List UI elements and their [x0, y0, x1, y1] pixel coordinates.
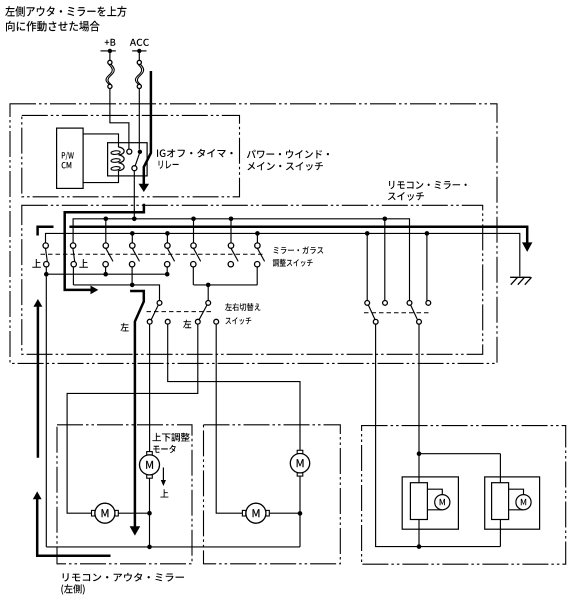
node A-s5: [165, 272, 170, 277]
mirror adjust switch contact 3: [103, 243, 113, 267]
node T2-selL: [365, 231, 370, 236]
fusible link ACC: [135, 60, 143, 88]
mirror box L2: [204, 425, 341, 564]
wire selector4 down: [418, 324, 420, 546]
wire s3 down: [105, 267, 107, 274]
wire T2 to selector R1: [366, 233, 368, 300]
node T2-selR: [425, 231, 430, 236]
relay output contact: [132, 166, 137, 171]
selector switch unit3: [365, 301, 388, 325]
flow arrow down to ground: [522, 242, 532, 252]
wire T2 to selector R4: [426, 233, 428, 300]
wire line C to selector unit2: [207, 285, 209, 301]
thick path selector to motor: [130, 291, 144, 527]
wire M1 to return: [149, 478, 151, 547]
flow arrow down at relay: [139, 184, 150, 192]
wire s8 down: [256, 267, 258, 285]
thick ground bus left stub: [38, 227, 54, 236]
actuator 2 body: [492, 483, 509, 520]
actuator assembly 1 box: [402, 477, 458, 529]
node T1-relay: [132, 217, 137, 222]
actuator 1 body: [410, 483, 427, 520]
title line 2: [6, 21, 100, 32]
left outer mirror box L1: [57, 425, 192, 564]
actuator 2 motor link: [509, 489, 524, 510]
wire P/W CM to coil top: [83, 134, 118, 147]
wire T1 to s7: [230, 219, 232, 243]
thick return wire upper: [37, 306, 40, 458]
thick ground bus: [69, 227, 527, 243]
wire ACC to relay contact: [138, 89, 140, 150]
wire motor return up: [299, 513, 301, 547]
motor M4 left/right right mirror: [242, 503, 269, 523]
+B terminal: [101, 49, 116, 61]
label power window main switch: [247, 150, 329, 171]
relay coil: [111, 147, 124, 171]
wire T2 to s4: [131, 233, 133, 243]
relay U1 box: [108, 143, 148, 176]
relay arm: [135, 154, 139, 166]
wire selector2L to motor M3: [67, 324, 198, 513]
mirror adjust switch contact 7: [228, 243, 238, 267]
node A-s3: [103, 272, 108, 277]
node M1 return: [147, 511, 152, 516]
actuator motor M6: [516, 495, 531, 510]
wire T1 to s6: [193, 219, 195, 243]
relay contact from ACC: [138, 150, 142, 154]
label up-down motor: [152, 433, 189, 453]
actuator 1 motor link: [427, 489, 442, 510]
wire T1 to s3: [105, 219, 107, 243]
wire actuator right column: [499, 454, 501, 547]
label remote outer mirror left: [61, 573, 184, 595]
ACC terminal: [132, 49, 146, 61]
ground bus T2: [46, 233, 520, 276]
mirror adjust switch contact 5: [165, 243, 175, 267]
node T1-s3: [104, 217, 109, 222]
label left u1: [121, 323, 129, 332]
wire T1 to selector R2: [384, 219, 386, 301]
bus line A: [46, 273, 167, 275]
node T2-s5: [165, 231, 170, 236]
node T2-s8: [255, 231, 260, 236]
return line bottom: [46, 546, 300, 548]
label remote mirror switch: [388, 181, 467, 201]
wire selector1L to motor M1: [149, 324, 151, 452]
wire M3 to M1 junction: [118, 512, 149, 514]
thick path relay to switch: [65, 204, 144, 290]
label up s1: [32, 259, 41, 268]
label left-right selector switch: [225, 303, 260, 325]
power window main switch box: [22, 115, 240, 196]
wire s4 down: [131, 267, 133, 285]
node return line: [147, 545, 152, 550]
bus line B: [73, 285, 159, 301]
wire T2 to s8: [256, 233, 258, 243]
feed bus T1: [73, 219, 409, 301]
wire P/W CM to coil bottom: [83, 171, 118, 183]
return wire left: [45, 267, 47, 547]
flow arrow right at switch: [91, 286, 99, 295]
node T1-s6: [191, 217, 196, 222]
node T1-sel: [383, 217, 388, 222]
wire +B to relay contact: [110, 89, 129, 149]
mirror adjust switch contact 8: [255, 243, 265, 267]
wire s5 down: [166, 267, 168, 274]
mirror switch linkage: [41, 253, 264, 255]
wire T2 to s5: [166, 233, 168, 243]
node right box bottom: [417, 544, 422, 549]
motor M2 up/down right mirror: [290, 450, 309, 476]
wire relay output to bus: [133, 171, 135, 219]
wire s6 down: [192, 267, 194, 285]
actuator assembly 2 box: [485, 477, 540, 529]
flow arrow up return lower: [33, 491, 42, 499]
wire M2 down: [299, 476, 301, 513]
node C-sel2: [206, 283, 211, 288]
label left u2: [183, 320, 191, 329]
node B-s4: [130, 283, 135, 288]
label IG off timer relay: [157, 149, 233, 169]
P/W CM box: [57, 128, 84, 188]
actuator motor M5: [435, 495, 450, 510]
right mirror box: [362, 426, 566, 565]
title line 1: [5, 6, 126, 17]
node A-s1: [44, 272, 49, 277]
motor M3 left/right left mirror: [92, 503, 119, 523]
up annotation arrow: [161, 468, 166, 487]
label up near M1: [160, 489, 168, 497]
bus line C: [194, 284, 258, 286]
selector switch unit4: [407, 301, 431, 325]
thick return wire lower: [37, 499, 110, 556]
mirror adjust switch contact 4: [129, 243, 139, 267]
wire s2 down: [72, 267, 74, 285]
wire selector1R to motor M2: [168, 324, 300, 450]
label ACC: [130, 39, 149, 46]
selector switch unit2: [195, 301, 218, 325]
flow arrow down at motor: [130, 526, 141, 535]
wire selector2R to motor M4: [216, 324, 242, 513]
mirror adjust switch contact 6: [191, 243, 201, 267]
thick path ACC through relay: [144, 71, 151, 184]
label P/W CM: [62, 152, 74, 169]
motor M1 up/down left mirror: [140, 452, 160, 479]
outer unit box: [10, 104, 497, 364]
ground: [510, 277, 531, 284]
wire actuator top link: [419, 453, 500, 455]
label mirror glass adjust switch: [273, 246, 324, 266]
wire M4 to junction: [269, 512, 300, 514]
node T1-s7: [229, 217, 234, 222]
label up s2: [79, 259, 88, 268]
remote mirror switch box: [22, 205, 483, 354]
wire selector3 down: [376, 324, 501, 546]
mirror adjust switch contact 1: [43, 243, 49, 267]
selector switch unit1: [147, 301, 170, 325]
selector linkage left: [147, 311, 214, 313]
relay contact from +B: [127, 149, 132, 154]
label +B: [105, 39, 116, 46]
selector linkage right: [364, 312, 430, 314]
node right box top: [417, 451, 422, 456]
node M2-M4 junction: [298, 511, 303, 516]
mirror adjust switch contact 2: [70, 243, 76, 267]
node T2-s4: [130, 231, 135, 236]
flow arrow up return upper: [33, 299, 42, 307]
fusible link +B: [106, 60, 114, 88]
